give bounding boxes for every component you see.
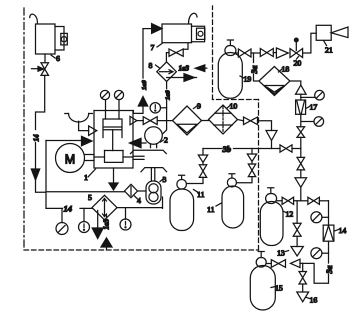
discharge valve line <box>137 117 173 125</box>
wire valve down left leg <box>36 75 45 129</box>
wire left leg continues <box>35 143 37 170</box>
inflow arrow 1a3 bottom <box>101 215 112 250</box>
svg-text:1a3: 1a3 <box>179 65 190 73</box>
label 3 <box>160 175 167 184</box>
restrictor 14 <box>323 225 334 241</box>
label 16 <box>307 296 318 305</box>
label 15 <box>271 284 283 293</box>
outflow arrow 1a3 right <box>167 74 197 82</box>
metering pump 3 <box>146 181 161 204</box>
wire 18 to main column <box>290 81 301 85</box>
label 7 <box>151 43 163 52</box>
wire 14 down <box>328 241 330 263</box>
gauge P right above compressor <box>114 90 123 119</box>
motor M <box>56 144 95 173</box>
boundary dashed mid horizontal <box>213 99 259 101</box>
flow arrow into compressor left <box>82 136 93 146</box>
svg-text:18: 18 <box>282 65 290 74</box>
tank 11a <box>170 175 194 230</box>
tank 11b <box>222 174 244 228</box>
svg-text:5: 5 <box>88 193 92 202</box>
gauge tee upper right <box>301 90 325 100</box>
tank 15 <box>250 252 275 311</box>
svg-text:17: 17 <box>310 103 318 112</box>
valve under 7 <box>169 49 183 56</box>
dryer 9 <box>173 106 202 135</box>
filter 4 <box>125 184 138 197</box>
branch 16 valve <box>299 263 306 292</box>
wire column to header junction <box>300 137 302 157</box>
label 11a <box>194 190 205 200</box>
flow arrow into block right <box>130 138 147 147</box>
wire compressor drain down <box>113 168 115 183</box>
gauge tee 12b <box>311 248 329 259</box>
svg-text:10: 10 <box>230 102 238 111</box>
wire feed to separator 7 <box>143 28 152 30</box>
flow arrow into 7 <box>152 24 162 34</box>
check valve into cylinder <box>89 126 97 135</box>
boundary dashed mid vertical <box>212 6 214 100</box>
svg-text:8: 8 <box>149 61 153 70</box>
label 10 <box>227 102 238 111</box>
check valve up <box>296 85 307 94</box>
column valve B <box>297 157 305 170</box>
svg-text:1a3: 1a3 <box>103 219 111 230</box>
flow arrow up on riser <box>133 97 147 114</box>
branch valve tank 11a <box>187 165 207 184</box>
header pipe 3b <box>203 148 280 150</box>
bottle header valve 1 <box>236 49 260 57</box>
label 13 <box>277 249 289 258</box>
wire lube line to filter 4 <box>46 191 125 193</box>
separator vessel 7 <box>162 13 205 42</box>
pump unit 2 <box>131 127 167 154</box>
reducer triangle <box>276 48 288 58</box>
label 18 <box>279 65 290 74</box>
wire intake line to compressor <box>46 140 82 142</box>
svg-text:15: 15 <box>275 284 283 293</box>
wire valve to filter 8 <box>166 53 169 62</box>
label 14 component <box>335 226 347 235</box>
label 21 <box>324 41 333 55</box>
gauge P left above compressor <box>100 90 109 119</box>
branch valve tank 11b <box>237 164 256 183</box>
valve under 6 <box>32 63 49 76</box>
svg-text:16: 16 <box>310 296 318 305</box>
dryer 10 <box>209 105 238 134</box>
discharge check valve top right <box>130 116 137 124</box>
flow arrow down under compressor <box>109 183 118 190</box>
label 2 <box>161 136 169 145</box>
wire riser to separator 7 <box>142 29 144 78</box>
tank12 header right valve <box>301 197 329 204</box>
vent funnel to header <box>266 131 277 149</box>
boundary dashed bottom <box>24 249 259 251</box>
label 4 <box>135 196 142 205</box>
branch funnel tank 11b <box>247 149 256 165</box>
filter 18 <box>259 67 290 96</box>
svg-text:20: 20 <box>294 59 302 68</box>
svg-text:1: 1 <box>84 173 88 182</box>
intake funnel <box>65 114 93 131</box>
wire out of 8 down <box>163 82 167 134</box>
wire left leg to bottom pipe <box>36 141 47 209</box>
separator vessel 6 <box>30 14 68 54</box>
branch funnel tank 11a <box>198 149 207 165</box>
wire filter4 to pump 3 <box>138 190 147 192</box>
svg-text:19: 19 <box>244 75 252 84</box>
filter 8 <box>157 62 177 82</box>
wire to flowmeter <box>300 94 302 100</box>
wire 9 to 10 <box>202 120 209 122</box>
control valve 20 <box>290 38 303 57</box>
gauge tee lower right <box>301 114 324 127</box>
svg-text:M: M <box>65 153 75 167</box>
svg-text:11: 11 <box>197 190 205 199</box>
gauge hang left <box>56 208 68 234</box>
svg-text:14: 14 <box>33 134 41 142</box>
svg-text:21: 21 <box>325 46 333 55</box>
ejector 21 <box>316 25 348 40</box>
compressor block 1 <box>94 111 133 169</box>
check valve left to tank15 <box>291 259 301 267</box>
vent funnel 13 <box>291 247 303 257</box>
wire column to funnel <box>300 170 302 178</box>
wire 3a drop to filter 18 <box>254 53 259 81</box>
wire valve20 to ejector <box>303 33 317 53</box>
label 19 <box>240 75 251 84</box>
label 9 <box>194 102 202 111</box>
svg-text:1a0: 1a0 <box>165 90 172 101</box>
label 6 <box>51 54 60 63</box>
wire 7 drain to valve <box>183 43 188 50</box>
svg-text:11: 11 <box>207 205 215 214</box>
svg-text:12: 12 <box>286 210 294 219</box>
bottle header valve 2 <box>260 49 276 57</box>
wire elbow to tank 15 line <box>300 263 329 283</box>
svg-text:9: 9 <box>197 102 201 111</box>
funnel down on column <box>295 178 307 201</box>
gauge tee 12a <box>311 212 329 223</box>
svg-text:6: 6 <box>56 54 60 63</box>
branch 13 valve <box>293 201 301 247</box>
pipe 14 bottom <box>46 207 163 210</box>
svg-text:4: 4 <box>137 196 141 205</box>
label 12 <box>283 210 293 219</box>
valve at tank 15 <box>266 260 285 268</box>
svg-text:2: 2 <box>164 136 168 145</box>
valve right of 10 <box>238 117 272 131</box>
label 17 <box>306 103 318 112</box>
gas bottle 19 <box>218 40 242 98</box>
header end valve <box>280 145 301 152</box>
svg-text:7: 7 <box>151 43 155 52</box>
instrument hang 2 <box>79 208 90 232</box>
label 8 <box>149 61 160 70</box>
vent funnel 16 <box>297 292 309 302</box>
label 11b <box>207 203 222 214</box>
label 1 <box>84 169 96 182</box>
right line down <box>328 201 330 225</box>
filter 5 <box>92 195 117 220</box>
label 20 <box>294 57 302 68</box>
shaft compressor to pumps <box>133 156 167 181</box>
wire vessel6 to valve <box>44 54 46 63</box>
boundary dashed right <box>258 100 260 251</box>
flow arrow down on left leg <box>31 169 39 180</box>
drain arrow below 5 <box>92 211 103 239</box>
tank 12 <box>260 188 283 246</box>
instrument T circle <box>150 103 167 113</box>
svg-text:14: 14 <box>64 204 73 214</box>
flowmeter 17 <box>296 100 306 114</box>
tank12 header left valve <box>277 197 301 204</box>
svg-text:13: 13 <box>277 249 285 258</box>
svg-text:3b: 3b <box>222 144 232 154</box>
svg-text:14: 14 <box>339 226 347 235</box>
column valve A <box>297 127 305 138</box>
svg-text:1a0: 1a0 <box>141 80 148 91</box>
boundary dash-dot left <box>23 8 25 250</box>
svg-text:3a: 3a <box>250 66 259 75</box>
svg-text:3a: 3a <box>325 266 334 275</box>
wire riser right of pump 3 <box>162 197 164 208</box>
instrument hang 3 <box>120 208 131 230</box>
flow arrow from 1a3 left <box>195 65 207 72</box>
svg-text:3: 3 <box>163 175 167 184</box>
